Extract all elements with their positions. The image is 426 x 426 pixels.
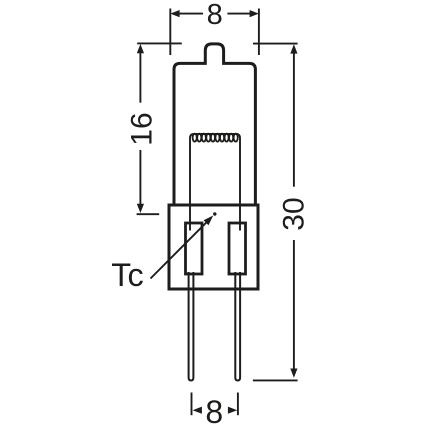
top dimension 8: right extension line xyxy=(258,9,260,56)
bottom dimension 8: right tick xyxy=(237,393,239,416)
30 dimension: lower line segment xyxy=(293,240,295,373)
left pin xyxy=(189,272,194,381)
Tc arrowhead xyxy=(204,216,214,226)
bottom dimension 8: left arrowhead xyxy=(193,407,202,414)
bulb glass capsule outline with exhaust tip xyxy=(174,44,255,207)
svg-text:8: 8 xyxy=(207,0,223,31)
right pin xyxy=(235,272,240,381)
bottom dimension 8: left tick xyxy=(191,393,193,416)
filament coil top bar and lead wires xyxy=(190,134,240,231)
lamp base rectangle xyxy=(169,205,258,289)
filament coil loops xyxy=(193,134,238,142)
svg-text:16: 16 xyxy=(125,112,158,145)
30 dimension: bottom tick xyxy=(253,379,298,381)
16 dimension: bottom tick xyxy=(137,213,160,215)
16 dimension: top arrowhead xyxy=(137,44,144,53)
bottom dimension 8: right arrowhead xyxy=(228,407,237,414)
top dimension 8: left arrowhead xyxy=(170,10,179,17)
left pin holder block xyxy=(186,223,203,274)
Tc leader line xyxy=(151,222,208,279)
top dimension 8: right arrowhead xyxy=(250,10,259,17)
Tc measuring point dot xyxy=(213,212,216,215)
svg-text:Tc: Tc xyxy=(111,257,144,293)
30 dimension: top tick xyxy=(253,43,298,45)
30 dimension: upper line segment xyxy=(293,51,295,187)
30 dimension: bottom arrowhead xyxy=(290,369,297,378)
16 dimension: lower line segment xyxy=(139,150,141,206)
top dimension 8: right line segment xyxy=(227,13,251,15)
svg-text:30: 30 xyxy=(277,197,310,230)
30 dimension: top arrowhead xyxy=(290,44,297,53)
16 dimension: bottom arrowhead xyxy=(137,204,144,213)
16 dimension: top tick xyxy=(137,42,182,44)
top dimension 8: left extension line xyxy=(169,9,171,56)
right pin holder block xyxy=(229,223,246,274)
svg-text:8: 8 xyxy=(205,394,223,426)
16 dimension: upper line segment xyxy=(139,51,141,103)
top dimension 8: left line segment xyxy=(178,13,203,15)
